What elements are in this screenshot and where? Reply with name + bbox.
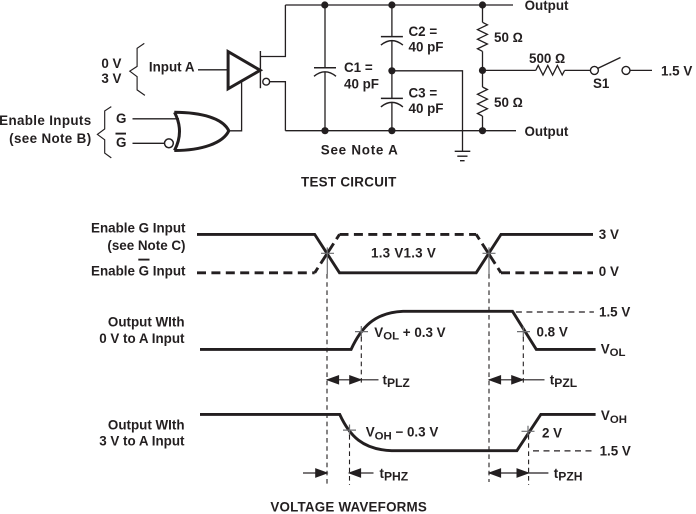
svg-text:C2 =: C2 = — [409, 24, 438, 39]
dashed 1.5V level row3 — [516, 311, 594, 313]
svg-text:S1: S1 — [593, 76, 610, 91]
waveform enable G-bar dashed — [197, 234, 593, 272]
overline for G-bar in label — [138, 259, 149, 261]
dashed vertical at crossing 2 — [488, 274, 490, 482]
dashed vertical tPZH right — [528, 435, 530, 485]
op-amp buffer U1 triangle — [228, 52, 260, 89]
wire input A to buffer — [198, 69, 228, 71]
svg-text:3 V to A Input: 3 V to A Input — [99, 434, 185, 449]
ground — [455, 151, 471, 160]
wire node to 500 ohm — [483, 69, 536, 71]
tick at crossing 2 — [483, 247, 496, 274]
svg-text:G: G — [116, 135, 126, 150]
waveform enable G solid — [197, 234, 593, 272]
junction C1 top rail — [321, 1, 328, 8]
junction C2 top rail — [388, 1, 395, 8]
inverter bubble on G-bar — [165, 139, 174, 148]
dashed vertical tPZL right — [522, 337, 524, 384]
wire G-bar waveform slants (solid) — [315, 234, 501, 272]
svg-text:tPLZ: tPLZ — [383, 373, 411, 391]
overline for G-bar — [116, 133, 127, 135]
svg-text:1.3 V1.3 V: 1.3 V1.3 V — [371, 245, 436, 260]
svg-text:TEST CIRCUIT: TEST CIRCUIT — [301, 175, 397, 190]
tick 0.8V — [517, 326, 530, 338]
junction C1 bottom rail — [321, 127, 328, 134]
tick VOL+0.3 — [355, 326, 368, 338]
capacitor C1 — [314, 5, 336, 131]
capacitor C3 — [381, 71, 403, 131]
junction node R1/R2 — [479, 67, 486, 74]
svg-text:0.8 V: 0.8 V — [537, 325, 568, 340]
arrow tPZH — [489, 469, 548, 477]
svg-text:Enable Inputs: Enable Inputs — [0, 113, 92, 128]
resistor R3 500 ohm — [536, 65, 565, 75]
svg-text:VOLTAGE WAVEFORMS: VOLTAGE WAVEFORMS — [270, 500, 427, 514]
transistor gate bar — [259, 51, 261, 88]
junction node C2/C3 — [388, 67, 395, 74]
svg-text:40 pF: 40 pF — [344, 77, 379, 92]
svg-text:VOH: VOH — [601, 408, 627, 426]
switch S1 throw — [622, 66, 630, 74]
dashed vertical at crossing 1 — [326, 274, 328, 484]
junction R2 bottom rail — [479, 127, 486, 134]
wire bottom rail — [285, 130, 516, 132]
svg-text:40 pF: 40 pF — [409, 39, 444, 54]
wire G-bar input — [133, 142, 165, 144]
svg-text:Input A: Input A — [149, 59, 195, 74]
svg-text:0 V: 0 V — [599, 264, 619, 279]
wire top rail — [285, 4, 513, 6]
svg-text:(see Note C): (see Note C) — [107, 238, 185, 253]
svg-text:VOL: VOL — [601, 341, 626, 359]
svg-text:3 V: 3 V — [599, 227, 619, 242]
resistor R2 50 ohm bottom — [478, 70, 488, 130]
waveform output 3V to A — [200, 414, 596, 450]
svg-text:tPZH: tPZH — [554, 466, 583, 484]
svg-text:0 V to A Input: 0 V to A Input — [99, 331, 185, 346]
dashed 1.5V level row4 — [533, 450, 595, 452]
svg-text:C1 =: C1 = — [344, 60, 373, 75]
svg-text:Output: Output — [525, 124, 569, 139]
svg-text:2 V: 2 V — [542, 426, 562, 441]
svg-text:Enable G Input: Enable G Input — [91, 263, 186, 278]
svg-text:1.5 V: 1.5 V — [599, 305, 630, 320]
arrow tPLZ — [327, 376, 379, 384]
svg-text:C3 =: C3 = — [409, 86, 438, 101]
switch S1 pole — [590, 66, 598, 74]
OR gate U2 — [174, 112, 229, 150]
resistor R1 50 ohm top — [478, 5, 488, 70]
svg-text:Output WIth: Output WIth — [108, 418, 185, 433]
brace for enable inputs — [97, 107, 111, 158]
wire C2/C3 node to ground — [392, 71, 463, 152]
svg-text:See Note A: See Note A — [321, 142, 399, 157]
svg-text:Output: Output — [525, 0, 569, 13]
wire transistor top branch — [261, 5, 285, 57]
tick VOH-0.3 — [343, 425, 356, 437]
svg-text:50 Ω: 50 Ω — [494, 30, 523, 45]
dashed vertical tPHZ right — [349, 435, 351, 485]
wire switch to 1.5V — [630, 69, 652, 71]
brace for input A levels — [130, 43, 145, 95]
svg-text:Enable G Input: Enable G Input — [91, 221, 186, 236]
dashed vertical tPLZ right — [360, 337, 362, 384]
wire transistor bottom branch — [270, 82, 286, 131]
svg-text:1.5 V: 1.5 V — [661, 64, 692, 79]
svg-text:(see Note B): (see Note B) — [9, 131, 91, 146]
svg-text:3 V: 3 V — [101, 71, 121, 86]
svg-text:VOL + 0.3 V: VOL + 0.3 V — [374, 325, 445, 343]
svg-text:tPZL: tPZL — [550, 373, 578, 391]
junction C3 bottom rail — [388, 127, 395, 134]
wire 500 ohm to switch — [565, 69, 591, 71]
switch S1 lever — [598, 58, 621, 69]
svg-text:40 pF: 40 pF — [409, 101, 444, 116]
wire OR output to buffer enable — [229, 82, 242, 131]
svg-text:Output WIth: Output WIth — [108, 315, 185, 330]
svg-text:VOH − 0.3 V: VOH − 0.3 V — [366, 425, 439, 443]
junction R1 top rail — [479, 1, 486, 8]
svg-text:G: G — [116, 111, 126, 126]
arrow tPZL — [489, 376, 545, 384]
tick at crossing 1 — [321, 247, 334, 274]
wire G input — [133, 118, 180, 120]
waveform output 0V to A — [200, 311, 596, 349]
svg-text:50 Ω: 50 Ω — [494, 95, 523, 110]
capacitor C2 — [381, 5, 403, 71]
svg-text:0 V: 0 V — [101, 56, 121, 71]
transistor bubble — [263, 78, 270, 85]
svg-text:500 Ω: 500 Ω — [529, 51, 565, 66]
svg-text:1.5 V: 1.5 V — [600, 443, 631, 458]
tick 2V — [522, 426, 535, 438]
arrow tPHZ — [303, 469, 374, 477]
svg-text:tPHZ: tPHZ — [380, 466, 409, 484]
